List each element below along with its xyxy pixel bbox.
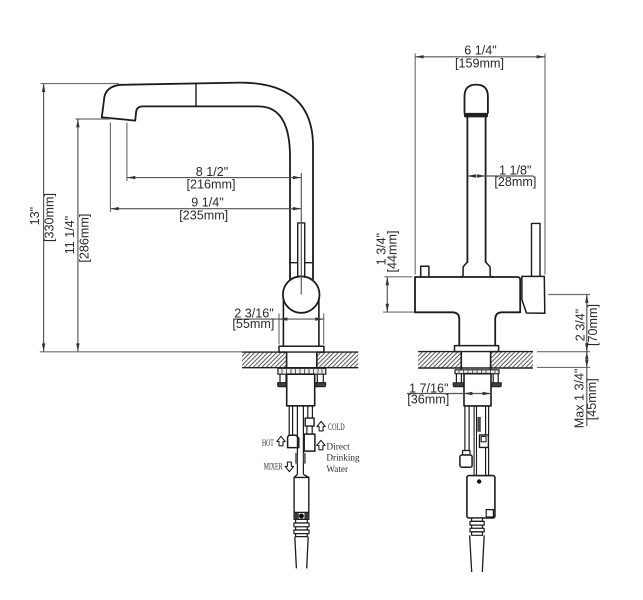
- svg-text:[286mm]: [286mm]: [78, 214, 92, 263]
- svg-text:[330mm]: [330mm]: [43, 193, 57, 242]
- braided hose segment: [477, 417, 480, 432]
- arrow 13 bottom: [42, 343, 45, 351]
- 2 3/4 extension line: [548, 294, 590, 296]
- hot supply tube: [289, 406, 292, 435]
- counter bottom extension line: [537, 366, 590, 368]
- svg-text:[55mm]: [55mm]: [232, 317, 274, 331]
- 9 1/4in dimension line: [110, 208, 301, 210]
- left mounting bolt: [456, 374, 461, 383]
- svg-text:HOT: HOT: [262, 438, 274, 449]
- outlet hose: [470, 535, 485, 572]
- svg-text:Drinking: Drinking: [326, 453, 359, 464]
- svg-text:Direct: Direct: [326, 441, 350, 452]
- left tube fitting: [463, 451, 470, 456]
- arrow 36mm left: [464, 392, 472, 395]
- arrow 6.25 right: [537, 55, 545, 58]
- HOT arrow: [277, 436, 285, 446]
- svg-text:[70mm]: [70mm]: [586, 304, 600, 346]
- shank body below counter: [464, 374, 491, 406]
- body block (front): [415, 277, 520, 312]
- 2 3/16in dimension line: [235, 318, 324, 320]
- countertop extension line: [40, 351, 242, 353]
- arrow 1.75 top: [386, 277, 389, 285]
- svg-text:MIXER: MIXER: [264, 462, 283, 473]
- counter top extension line: [537, 351, 590, 353]
- check valve indicator band: [294, 512, 309, 519]
- svg-text:[28mm]: [28mm]: [494, 175, 536, 189]
- flow labels left view: [262, 421, 360, 474]
- arrow max top: [585, 352, 588, 360]
- valve body under counter: [287, 374, 315, 406]
- svg-text:11 1/4": 11 1/4": [63, 216, 77, 255]
- svg-text:[44mm]: [44mm]: [386, 231, 400, 273]
- spout tube (front): [467, 117, 485, 262]
- hose coupling rings: [296, 519, 308, 523]
- left mounting bolt: [280, 374, 286, 382]
- 13in top extension line: [41, 83, 120, 85]
- arrow 6.25 left: [415, 55, 423, 58]
- arrow 11.25 top: [76, 119, 79, 127]
- MIXER arrow (down): [285, 462, 293, 472]
- handle lever base (front): [522, 276, 545, 313]
- arrow 1.125 left: [467, 174, 475, 177]
- arrow 1.125 right: [477, 174, 485, 177]
- arrow 2.75 top: [585, 295, 588, 303]
- RIGHT VIEW: [415, 85, 545, 352]
- arrow 8.5 right: [293, 176, 301, 179]
- mixer tube sleeve marks: [295, 453, 297, 464]
- button bump on body: [421, 266, 429, 277]
- faucet spout head and arm outer profile: [102, 83, 313, 280]
- base flange: [279, 346, 324, 352]
- mixer outlet tube: [297, 406, 303, 475]
- 6 1/4 right extension line: [544, 54, 546, 275]
- arrow 2.75 bottom: [585, 343, 588, 351]
- spray head joint line: [195, 83, 197, 106]
- filter cartridge box: [467, 476, 495, 518]
- dimensions left view: [40, 84, 324, 352]
- faucet spout underside and arm inner profile: [102, 106, 290, 279]
- countertop hatched slab: [242, 352, 358, 368]
- square fitting: [480, 435, 489, 448]
- 1 1/8 dimension line: [467, 175, 533, 177]
- cold supply tube: [308, 406, 313, 418]
- svg-text:[159mm]: [159mm]: [455, 57, 504, 71]
- arrow 55mm left: [279, 317, 287, 320]
- lock washer: [455, 370, 499, 374]
- 11 1/4in top extension line: [76, 118, 111, 120]
- countertop right view: [418, 351, 533, 370]
- spout dome (front): [465, 85, 488, 113]
- lock washer: [278, 368, 326, 374]
- aerator dark band: [464, 113, 488, 118]
- max thickness leader line: [586, 352, 588, 426]
- cold tube fitting: [305, 418, 314, 426]
- below counter left view: [278, 368, 326, 568]
- arrow 13 top: [42, 84, 45, 92]
- arrow max bottom: [585, 360, 588, 368]
- direct drinking water fitting: [304, 434, 315, 451]
- svg-text:[45mm]: [45mm]: [585, 378, 599, 420]
- 11 1/4in dimension line: [77, 119, 79, 352]
- flange (front): [455, 346, 499, 352]
- below counter right view: [453, 370, 501, 572]
- body bottom and pedestal: [415, 312, 520, 345]
- svg-text:[36mm]: [36mm]: [407, 393, 449, 407]
- 6 1/4 dimension line: [415, 56, 545, 58]
- right tube pair: [486, 406, 489, 476]
- pipe joint ticks: [290, 262, 313, 264]
- Direct arrow: [317, 440, 325, 450]
- tube flare to body: [461, 262, 493, 277]
- LEFT VIEW: [102, 83, 324, 352]
- pipe centerline extension: [300, 173, 302, 295]
- pull-out hose: [295, 537, 308, 569]
- svg-text:Water: Water: [326, 464, 348, 475]
- handle lever rod (side view): [298, 223, 305, 277]
- 2 3/16in extension lines: [279, 314, 324, 345]
- middle tube lines: [474, 406, 476, 476]
- svg-text:[235mm]: [235mm]: [179, 208, 228, 222]
- arrow 1.75 bottom: [386, 304, 389, 312]
- hot tube end fitting: [288, 435, 299, 447]
- 1 3/4 dimension line: [386, 277, 388, 312]
- handle rod (front): [532, 223, 541, 276]
- left tube pair: [465, 406, 469, 451]
- svg-text:6 1/4": 6 1/4": [464, 43, 496, 57]
- filter bottom notch: [486, 510, 493, 517]
- 6 1/4 left extension line: [414, 54, 416, 275]
- 1 3/4 extension lines: [383, 277, 415, 312]
- right mounting bolt: [317, 374, 323, 382]
- base neck sides: [283, 300, 319, 347]
- right mounting bolt: [493, 374, 498, 383]
- arrow 9.25 right: [293, 207, 301, 210]
- filter indicator dot: [477, 479, 481, 483]
- COLD arrow: [317, 421, 325, 431]
- ball joint: [283, 276, 320, 313]
- faucet shank through counter: [287, 352, 317, 368]
- 1 7/16 dimension line: [407, 393, 491, 395]
- arrow 11.25 bottom: [76, 343, 79, 351]
- spout outlet extension line: [126, 123, 128, 182]
- shank through counter: [461, 352, 490, 370]
- 2 3/4 dimension line: [586, 295, 588, 352]
- countertop hatched slab: [418, 352, 533, 368]
- arrow 9.25 left: [110, 207, 118, 210]
- arrow 8.5 left: [127, 176, 135, 179]
- 8 1/2in dimension line: [127, 177, 301, 179]
- svg-text:13": 13": [28, 207, 42, 225]
- arrow 36mm right: [483, 392, 491, 395]
- svg-text:COLD: COLD: [328, 422, 345, 433]
- dimensions right view: [383, 54, 590, 427]
- arrow 55mm right: [315, 317, 323, 320]
- 13in dimension line: [43, 84, 45, 352]
- countertop left view: [242, 351, 358, 368]
- spout tip extension line: [109, 123, 111, 213]
- svg-text:[216mm]: [216mm]: [187, 177, 236, 191]
- hose coupling rings: [472, 518, 483, 521]
- mixer check valve body: [294, 474, 309, 512]
